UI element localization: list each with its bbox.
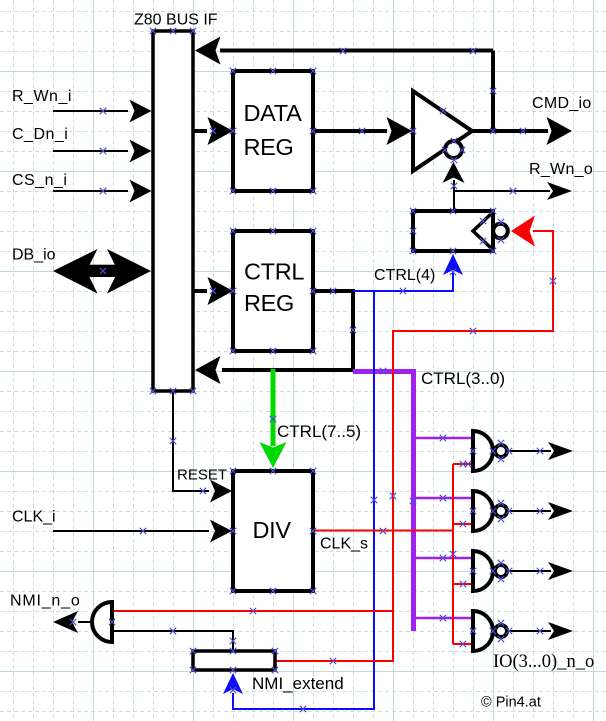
svg-text:CTRL(4): CTRL(4) — [374, 267, 435, 284]
wire enable vertical — [453, 180, 455, 209]
purple bus wire CTRL(3..0) vertical — [411, 369, 416, 631]
svg-text:CLK_s: CLK_s — [320, 536, 368, 553]
NAND gate U3c — [473, 551, 493, 591]
svg-text:CS_n_i: CS_n_i — [12, 172, 67, 189]
red wire CLK_s from DIV — [313, 530, 453, 532]
arrow IO1 output — [548, 562, 573, 580]
arrow into DATA REG — [208, 117, 234, 145]
wire R_Wn_i — [53, 110, 128, 112]
wire U3a output — [508, 450, 551, 452]
arrow into tri-state buffer — [387, 117, 413, 145]
arrow CLK_i into DIV — [210, 520, 232, 543]
blue arrow into delay element — [443, 254, 463, 275]
selection markers — [70, 28, 556, 712]
arrow into CTRL REG — [208, 277, 234, 305]
arrow C_Dn_i into Z80 — [130, 140, 152, 163]
arrow NMI_n_o output — [53, 611, 78, 633]
block DATA REG — [233, 71, 313, 191]
bubble U3b — [495, 505, 507, 517]
NAND gate U3b — [473, 491, 493, 531]
NMI_extend box — [193, 651, 275, 670]
svg-text:NMI_extend: NMI_extend — [252, 674, 344, 693]
svg-text:CLK_i: CLK_i — [12, 509, 56, 526]
red arrow into delay bubble — [511, 216, 535, 247]
arrow into Z80 BUS IF top — [195, 37, 221, 65]
red stub gate U3b — [453, 523, 473, 525]
svg-text:R_Wn_i: R_Wn_i — [12, 88, 72, 105]
tri-state buffer U1 — [413, 91, 472, 171]
block CTRL REG — [233, 231, 313, 351]
svg-text:R_Wn_o: R_Wn_o — [529, 161, 593, 178]
wire U3b output — [508, 510, 551, 512]
bidirectional bus arrow DB_io — [53, 249, 151, 294]
purple branch to gate U3c — [414, 557, 474, 560]
enable arrow up into bubble — [443, 162, 465, 183]
arrow R_Wn_i into Z80 — [130, 100, 152, 123]
wire C_Dn_i — [53, 150, 128, 152]
wire bus node down — [351, 289, 355, 370]
red stub gate U3c — [453, 583, 473, 585]
arrow IO3 output — [548, 442, 573, 460]
svg-text:© Pin4.at: © Pin4.at — [481, 695, 541, 711]
svg-text:DB_io: DB_io — [12, 247, 56, 264]
red stub gate U3a — [453, 463, 473, 465]
svg-text:CMD_io: CMD_io — [532, 95, 592, 112]
svg-text:CTRL(7..5): CTRL(7..5) — [277, 422, 361, 441]
wire CS_n_i — [53, 190, 128, 192]
wire bus back to Z80 — [222, 368, 355, 372]
svg-text:REG: REG — [244, 290, 294, 316]
wire R_Wn_o — [454, 190, 550, 192]
NMI output gate U4 — [92, 602, 112, 642]
arrow CMD_io output — [547, 117, 573, 145]
blue wire to NMI_extend — [233, 291, 374, 709]
block Z80 BUS IF — [153, 31, 193, 391]
svg-text:CTRL(3..0): CTRL(3..0) — [421, 369, 505, 388]
purple branch to gate U3d — [414, 617, 474, 620]
svg-text:REG: REG — [244, 134, 294, 160]
NAND gate U3a — [473, 431, 493, 471]
svg-text:IO(3...0)_n_o: IO(3...0)_n_o — [493, 652, 594, 672]
red wire NMI_extend output — [275, 660, 393, 662]
delay element chevron — [473, 214, 491, 248]
bubble U3d — [495, 625, 507, 637]
svg-text:DIV: DIV — [253, 517, 292, 543]
green wire CTRL(7..5) — [271, 369, 276, 446]
green arrow into DIV top — [260, 442, 287, 468]
arrow IO2 output — [548, 502, 573, 520]
arrow CS_n_i into Z80 — [130, 180, 152, 203]
blue wire CTRL(4) — [353, 273, 453, 291]
purple branch to gate U3b — [414, 497, 474, 500]
block DIV — [233, 471, 313, 591]
bubble U3a — [495, 445, 507, 457]
NAND gate U3d — [473, 611, 493, 651]
delay element bubble — [493, 224, 508, 239]
red wire branch to NMI gate — [112, 610, 393, 612]
svg-text:RESET: RESET — [177, 467, 227, 484]
svg-text:C_Dn_i: C_Dn_i — [12, 126, 68, 143]
svg-text:CTRL: CTRL — [244, 259, 304, 285]
wire Z80 to CTRL REG — [193, 289, 207, 293]
svg-text:DATA: DATA — [244, 100, 303, 126]
tri-state enable bubble — [445, 141, 462, 158]
wire RESET from Z80 bottom to DIV — [173, 391, 209, 491]
svg-text:NMI_n_o: NMI_n_o — [10, 593, 81, 610]
arrow into Z80 BUS IF right — [195, 356, 221, 384]
wire Z80 to DATA REG — [193, 129, 207, 133]
red wire delay bubble to NMI net — [277, 231, 553, 661]
bubble U3c — [495, 565, 507, 577]
wire tri-state output to CMD_io — [472, 129, 548, 133]
red wire vertical to NAND gates — [452, 464, 454, 644]
wire CTRL REG to bus node — [313, 289, 353, 293]
red stub gate U3d — [453, 643, 473, 645]
arrow R_Wn_o output — [547, 182, 572, 200]
svg-text:Z80 BUS IF: Z80 BUS IF — [134, 12, 218, 29]
arrow RESET into DIV — [210, 480, 232, 503]
purple branch to gate U3a — [414, 437, 474, 440]
arrow IO0 output — [548, 622, 573, 640]
delay element U2 (NMI pulse) — [413, 211, 493, 251]
wire feedback top: CMD bus to Z80 BUS IF — [220, 51, 493, 132]
black wire NMI gate lower input — [112, 631, 233, 651]
wire U3d output — [508, 630, 551, 632]
purple bus wire CTRL(3..0) horizontal — [353, 369, 414, 374]
NMI gate output wire — [78, 621, 92, 623]
wire U3c output — [508, 570, 551, 572]
wire DATA REG to tri-state buffer — [313, 129, 387, 133]
wire CLK_i — [53, 530, 209, 532]
blue arrow into NMI_extend — [223, 673, 243, 694]
